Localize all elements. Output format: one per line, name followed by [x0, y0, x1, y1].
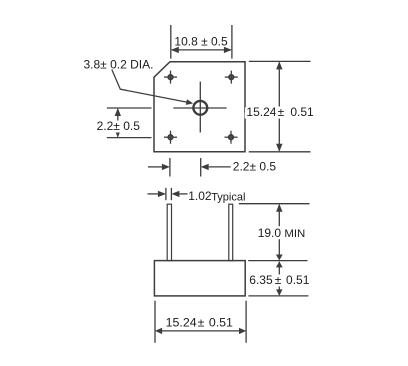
bottom extension line	[248, 295, 308, 297]
svg-text:15.24±0.51: 15.24±0.51	[246, 105, 314, 119]
pin terminal bottom-right	[225, 131, 238, 144]
svg-text:3.8± 0.2 DIA.: 3.8± 0.2 DIA.	[84, 57, 154, 71]
dim 15.24 right dimension line	[278, 63, 280, 151]
dim 19.0 dimension line	[278, 205, 280, 260]
dim 15.24 right extension lines	[249, 60, 311, 62]
lead 2	[229, 204, 233, 260]
dim 1.02 arrows	[148, 193, 158, 195]
svg-text:6.35±0.51: 6.35±0.51	[249, 273, 309, 287]
dim 2.2 left dimension line	[117, 109, 119, 137]
pin terminal top-right	[225, 71, 238, 84]
dim 2.2 bottom tick lines	[169, 158, 171, 177]
dim 2.2 left extension lines	[107, 107, 152, 109]
svg-text:1.02: 1.02	[188, 189, 212, 203]
center mounting hole	[173, 82, 226, 133]
top view package outline	[154, 62, 245, 152]
svg-text:10.8 ± 0.5: 10.8 ± 0.5	[174, 35, 228, 49]
dim 19.0 top extension line	[239, 203, 310, 205]
dim 2.2 bottom arrows	[148, 166, 162, 168]
svg-text:2.2± 0.5: 2.2± 0.5	[97, 119, 141, 133]
dim 6.35 dimension line	[278, 262, 280, 295]
dim 15.24 bottom dimension line	[156, 330, 245, 332]
pin terminal bottom-left	[164, 131, 177, 144]
svg-text:15.24±0.51: 15.24±0.51	[166, 315, 233, 329]
dim 1.02 tick lines	[165, 188, 167, 200]
svg-text:2.2± 0.5: 2.2± 0.5	[233, 160, 277, 174]
pin terminal top-left	[164, 71, 177, 84]
leader line for 3.8 DIA	[112, 70, 191, 103]
svg-text:19.0 MIN: 19.0 MIN	[258, 226, 306, 240]
mid extension line	[248, 260, 307, 262]
dim 10.8 dimension line	[172, 49, 231, 51]
lead 1	[167, 204, 171, 260]
dim 15.24 bottom extension lines	[154, 301, 156, 343]
side view body	[154, 261, 245, 296]
svg-text:Typical: Typical	[211, 192, 245, 204]
dim 10.8 extension lines	[170, 25, 172, 59]
